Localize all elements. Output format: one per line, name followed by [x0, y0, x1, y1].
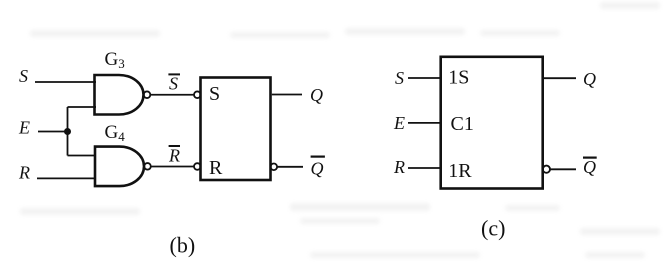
svg-text:(b): (b)	[170, 233, 196, 258]
svg-text:C1: C1	[451, 113, 474, 135]
svg-text:Q: Q	[583, 157, 596, 177]
inverter bubble G3 output	[144, 91, 151, 98]
wire R into IEC block	[408, 167, 441, 169]
svg-text:E: E	[393, 113, 405, 133]
svg-text:S: S	[395, 68, 404, 88]
junction dot on E net	[64, 128, 71, 135]
nand gate G3	[95, 75, 144, 115]
IEC symbol block U2	[441, 57, 543, 189]
inverter bubble latch Q-bar output	[271, 164, 278, 171]
svg-text:S: S	[209, 83, 220, 105]
wire latch Q-bar output	[277, 166, 303, 168]
wire G3 output to latch S input (net S-bar)	[150, 94, 194, 96]
svg-text:S: S	[19, 66, 28, 86]
svg-text:1S: 1S	[448, 67, 469, 89]
wire E branch to G4 top input	[68, 155, 97, 157]
svg-text:G4: G4	[105, 122, 126, 144]
inverter bubble latch R input	[194, 163, 201, 170]
svg-text:Q: Q	[311, 159, 324, 179]
svg-text:G3: G3	[105, 49, 125, 71]
overbar of Q-bar (c)	[583, 157, 597, 159]
svg-text:R: R	[393, 157, 405, 177]
wire E vertical branch	[67, 107, 69, 156]
svg-text:R: R	[209, 157, 223, 179]
overbar of S-bar	[168, 73, 180, 75]
wire E to junction	[38, 131, 68, 133]
wire E branch to G3 lower input	[68, 106, 97, 108]
inverter bubble Q-bar output (c)	[543, 166, 550, 173]
overbar of R-bar	[169, 145, 180, 147]
svg-text:R: R	[168, 146, 180, 166]
svg-text:Q: Q	[583, 69, 596, 89]
svg-text:1R: 1R	[448, 160, 472, 182]
svg-text:(c): (c)	[481, 216, 505, 241]
inverter bubble latch S input	[194, 91, 201, 98]
wire G4 output to latch R input (net R-bar)	[151, 166, 194, 168]
wire E into IEC block	[408, 122, 441, 124]
inverter bubble G4 output	[144, 163, 151, 170]
wire S into IEC block	[408, 77, 441, 79]
svg-text:R: R	[18, 162, 30, 182]
wire R to G4 lower input	[37, 177, 96, 179]
wire Q-bar output (c)	[550, 168, 576, 170]
svg-text:S: S	[169, 74, 178, 94]
wire S to G3 top input	[35, 81, 96, 83]
wire Q output (c)	[543, 77, 576, 79]
svg-text:E: E	[18, 118, 30, 138]
svg-text:Q: Q	[310, 85, 323, 105]
SR latch box U1	[201, 78, 271, 181]
wire latch Q output	[272, 94, 302, 96]
overbar of Q-bar (b)	[311, 156, 325, 158]
nand gate G4	[95, 147, 144, 187]
